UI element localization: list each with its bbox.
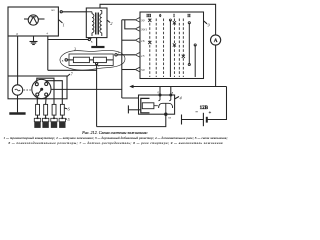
relay top terminal circles [159,94,172,96]
switch terminal 50 [135,67,144,72]
sensor-distributor box (7) [8,76,67,99]
pin label к at coil bottom [88,38,93,44]
relay contacts fixed hooks [158,95,170,101]
node + oval right terminal [106,50,120,60]
svg-text:−: − [195,109,198,114]
ammeter A1 [211,35,221,45]
svg-text:+: + [46,31,49,36]
svg-text:5: 5 [68,117,71,122]
coil ground bar [91,46,104,48]
svg-text:к: к [62,59,64,63]
switch terminal 30/1 [135,27,147,32]
suppression resistor R6d [60,104,64,115]
relay bottom terminal dot [165,113,167,115]
label 5 with leader [66,117,71,122]
svg-text:2: 2 [110,21,113,26]
svg-text:9: 9 [208,23,211,28]
battery left T-bar ground terminal [182,115,204,125]
relay moving contact blade [159,103,173,108]
spark plug P4 [59,118,65,128]
wire С down to bottom bus [96,64,98,127]
svg-text:II: II [187,13,191,18]
wire oval + to switch 15 [117,54,135,56]
additional resistor block R3 oval (3) [60,50,125,70]
switch terminal 15 [135,52,144,58]
label 7 with leader [67,72,74,77]
svg-text:А: А [214,38,218,44]
svg-text:4: 4 [180,96,183,101]
svg-text:30: 30 [141,18,145,22]
wire commutator + down and coil к joining [48,36,97,70]
wire commutator K to ignition coil [62,11,86,13]
svg-text:кз: кз [52,8,56,12]
relay coil core bracket [141,98,150,112]
resistor block inner rectangle [69,54,113,66]
svg-text:в: в [172,91,174,95]
switch contact marks [148,19,196,66]
wire bottom bus to relay [97,114,166,126]
wire terminal ПР to bus [122,39,136,41]
wire bracket 30/1 [125,20,136,29]
spark plug P2 [42,118,48,128]
label 1 with leader [58,20,64,28]
wire top bus from coil to right [100,4,216,35]
svg-text:16: 16 [141,39,145,43]
magneto pulse sensor G1 [12,85,22,95]
suppression resistor R6c [52,104,56,115]
suppression resistor R6a [36,104,40,115]
wire ammeter to feed line [215,45,217,87]
label 4 with leader [175,96,183,101]
svg-text:15: 15 [141,54,145,58]
wire blade stem to bottom terminal [165,103,167,114]
suppression resistor R6b [44,104,48,115]
cap tower NE [45,83,48,86]
svg-text:6 — помехоподавительные резист: 6 — помехоподавительные резисторы; 7 — д… [8,141,223,145]
battery GB1 12V [195,106,211,126]
wire coil lead to contact [154,105,158,107]
cap tower SE [45,93,48,96]
node к oval left terminal [62,59,74,63]
coil primary winding [86,12,94,36]
wire relay v terminal riser [170,87,172,95]
svg-text:30/1: 30/1 [141,28,147,32]
ground under commutator [30,36,38,45]
distributor cap circle [32,79,51,98]
wire HV cap to right [51,88,122,90]
switch terminal 30 [135,17,144,22]
cap tower NW [35,83,38,86]
node С oval bottom terminal [96,63,101,69]
svg-text:7: 7 [71,72,74,77]
wire battery plus up to feed [207,87,227,120]
wire tower SW down [36,96,38,104]
svg-text:12В: 12В [200,106,209,111]
wire tower SE down [45,96,48,104]
rotor center electrode [39,88,43,93]
transistor commutator box U1 (1) [8,7,58,36]
svg-text:III: III [146,13,151,18]
wire bus A left of switch [121,20,123,98]
relay coil winding [142,103,154,109]
svg-text:д: д [16,32,18,36]
svg-text:3: 3 [74,47,76,52]
ground under sensor [9,95,25,113]
label 2 with leader [107,20,113,26]
svg-text:I: I [173,13,175,18]
svg-text:50: 50 [141,68,145,72]
wire coil HV lead down [96,38,98,46]
ignition coil T1 (2) box [86,8,107,38]
resistor R3a [73,57,89,62]
spark plug P3 [51,118,57,128]
wire main feed with arrow to left [129,85,226,88]
wire left edge bus box1 to box7 [7,36,9,76]
wires resistors to plugs [38,115,63,118]
svg-text:с: с [98,64,100,68]
svg-text:кз: кз [169,117,172,120]
svg-text:1 — транзисторный коммутатор;: 1 — транзисторный коммутатор; 2 — катушк… [4,135,228,140]
svg-text:6: 6 [68,107,71,112]
node K terminal circle at commutator right [60,11,62,13]
svg-text:+: + [209,110,212,115]
cap tower SW [36,93,39,96]
transistor Q1 inside commutator [24,15,45,25]
switch terminal ПР [135,38,144,43]
wire tower NE to plug wire 4 [46,81,62,105]
switch column lines [150,19,184,78]
label 9 with leader [204,21,211,28]
wire tower NW to plug wire 3 [37,78,54,104]
label 6 with leader [64,107,70,112]
ignition switch box S1 (9) [140,12,204,79]
wire commutator Д down to sensor [17,36,19,85]
wire terminal 30 to bus [122,19,136,21]
auxiliary relay K1 (4) box [139,95,175,114]
svg-text:1: 1 [63,23,65,28]
svg-text:0: 0 [159,13,161,18]
dashed mechanical link [24,89,32,91]
coil core [96,13,99,35]
wire relay b terminal riser [159,87,161,95]
relay left T-bar terminal [128,105,140,113]
svg-text:Рис. 212. Схема системы зажига: Рис. 212. Схема системы зажигания: [81,130,148,135]
wire bus to starter relay [122,97,139,99]
resistor R3b [93,57,106,62]
wire between resistors [89,59,93,61]
spark plug P1 [34,118,40,128]
svg-text:к: к [91,39,93,43]
wire 50 to bus [122,69,136,71]
coil secondary winding [100,11,102,37]
